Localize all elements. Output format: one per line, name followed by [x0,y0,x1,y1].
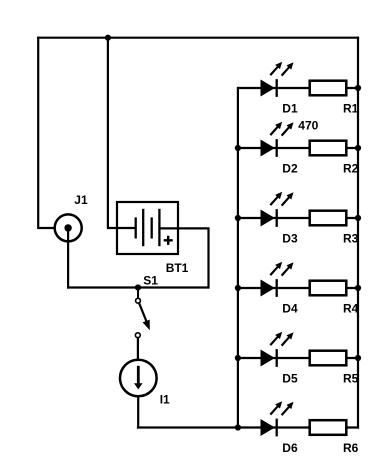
resistor R4 [310,281,347,296]
battery BT1 plate short 2 [151,217,153,238]
resistor R1 [310,81,347,96]
svg-text:J1: J1 [74,193,88,207]
switch S1 bottom terminal circle [135,333,140,338]
LED D3 triangle and cathode bar [261,209,277,227]
svg-text:S1: S1 [143,274,158,288]
svg-text:R1: R1 [343,102,359,116]
junction dot left rail bottom [235,424,241,430]
wire left rail (LED anode bus) [237,87,239,429]
battery BT1 box [117,202,178,254]
LED D1 triangle and cathode bar [261,79,277,97]
svg-text:470: 470 [298,119,318,133]
current source I1 circle [120,360,157,397]
wire from J1 center pin down to S1 node [67,228,69,289]
svg-text:D4: D4 [282,302,298,316]
LED D2 light arrows [270,122,293,136]
LED D5 triangle and cathode bar [261,349,277,367]
LED D1 light arrows [270,62,293,76]
svg-text:R4: R4 [343,302,359,316]
LED D6 triangle and cathode bar [261,419,277,437]
wire row 3 (left rail to right rail through D3/R3) [238,217,358,219]
current source I1 arrow [134,366,143,390]
junction dot left rail row 5 [235,355,241,361]
svg-text:R2: R2 [343,162,359,176]
LED D2 triangle and cathode bar [261,139,277,157]
wire from J1 down-corner to S1 node and battery branch [67,286,209,288]
LED D5 light arrows [270,332,293,346]
svg-text:BT1: BT1 [166,261,189,275]
battery BT1 left lead inside box [117,227,136,229]
battery BT1 plate long 1 [142,209,144,246]
wire right rail [357,37,359,429]
junction dot right rail row 2 [355,145,361,151]
svg-text:D2: D2 [282,162,298,176]
wire row 4 (left rail to right rail through D4/R4) [238,287,358,289]
switch S1 junction dot [135,284,141,290]
battery BT1 plus sign [164,236,173,245]
svg-text:D6: D6 [282,441,298,455]
wire J1 center pin through circle [67,228,69,243]
junction dot right rail row 1 [355,85,361,91]
svg-text:I1: I1 [160,393,170,407]
svg-text:R6: R6 [343,441,359,455]
junction dot top bus / battery branch [105,35,111,41]
connector J1 center pin dot [64,224,71,231]
svg-text:R5: R5 [343,372,359,386]
wire battery positive lead to S1 node [159,228,208,288]
svg-text:D5: D5 [282,372,298,386]
svg-text:D1: D1 [282,102,298,116]
battery BT1 plate short 1 [135,217,137,238]
wire bottom bus from I1 to right rail through D6/R6 [137,426,359,428]
switch S1 lever with arrow [139,303,150,331]
svg-text:R3: R3 [343,232,359,246]
LED D6 light arrows [270,401,293,415]
wire from top junction down to battery negative lead [108,37,136,228]
switch S1 top terminal circle [136,298,141,303]
battery BT1 plate long 2 [158,209,160,246]
resistor R3 [310,211,347,226]
wire top bus [37,37,359,39]
resistor R2 [310,141,347,156]
junction dot right rail row 3 [355,215,361,221]
LED D4 triangle and cathode bar [261,279,277,297]
junction dot left rail row 3 [235,215,241,221]
svg-text:D3: D3 [282,232,298,246]
junction dot right rail row 4 [355,285,361,291]
wire switch S1 to current source I1 [137,337,139,360]
junction dot right rail row 5 [355,355,361,361]
wire I1 bottom lead [137,396,139,429]
LED D3 light arrows [270,192,293,206]
wire row 2 (left rail to right rail through D2/R2) [238,147,358,149]
wire row 5 (left rail to right rail through D5/R5) [238,357,358,359]
connector J1 outer circle [55,214,82,241]
wire row 1 (left rail to right rail through D1/R1) [238,87,358,89]
junction dot left rail row 4 [235,285,241,291]
switch S1 top stub [137,288,139,299]
resistor R6 [310,420,347,435]
resistor R5 [310,351,347,366]
junction dot left rail row 2 [235,145,241,151]
wire left branch from J1 lead up to top wire [38,37,55,228]
LED D4 light arrows [270,262,293,276]
